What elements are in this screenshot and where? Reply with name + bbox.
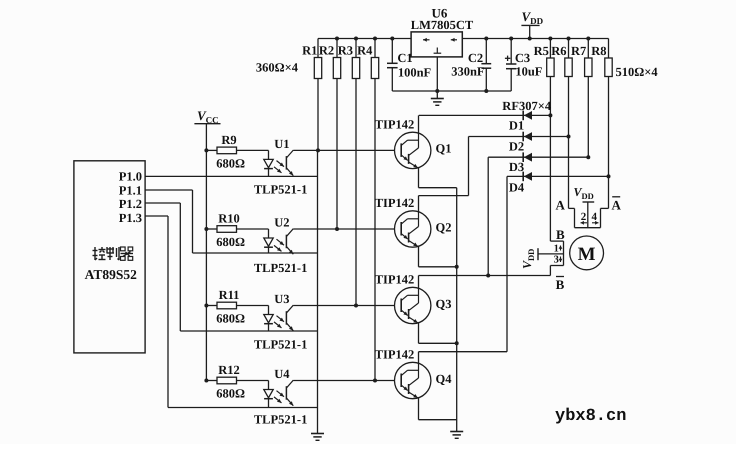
- junction base line / R1: [316, 148, 320, 152]
- svg-text:R1: R1: [302, 43, 317, 57]
- wire U2 collector to Q2 base: [293, 228, 394, 230]
- svg-text:VDD: VDD: [522, 9, 544, 26]
- svg-text:D3: D3: [509, 160, 524, 174]
- svg-text:Q1: Q1: [436, 142, 452, 156]
- label D1: [509, 119, 524, 133]
- label U2: [274, 216, 289, 230]
- wire Q4 emitter: [419, 398, 457, 420]
- label D3: [509, 160, 524, 174]
- power symbol VDD (top): [521, 9, 543, 39]
- svg-text:510Ω×4: 510Ω×4: [616, 65, 659, 79]
- label C1: [397, 51, 412, 65]
- wire R8 lower lead: [608, 77, 610, 209]
- resistor R5: [534, 39, 554, 77]
- label node A: [556, 198, 566, 213]
- svg-text:TLP521-1: TLP521-1: [254, 182, 307, 196]
- junction base line / R3: [354, 304, 358, 308]
- label Q1: [436, 142, 452, 156]
- wire regulator ground lead: [436, 57, 438, 99]
- svg-text:RF307×4: RF307×4: [502, 99, 552, 113]
- wire U3 collector to Q3 base: [293, 305, 394, 307]
- label C3: [515, 51, 530, 65]
- svg-text:TLP521-1: TLP521-1: [254, 338, 307, 352]
- label pin 2 with arrow: [581, 211, 588, 225]
- resistor R6: [551, 39, 572, 77]
- pin label P1.2: [119, 197, 142, 211]
- wire U1 collector to Q1 base: [293, 149, 394, 151]
- wire D3 feed down to B-bar node: [487, 157, 489, 275]
- wire U4 collector to Q4 base: [293, 380, 394, 382]
- pin label P1.0: [119, 170, 142, 184]
- optocoupler U2 TLP521-1: [264, 229, 294, 255]
- junction VCC rail / R10: [204, 227, 208, 231]
- svg-text:TIP142: TIP142: [375, 273, 415, 287]
- wire Q2 collector: [418, 196, 420, 212]
- pin label P1.3: [119, 211, 142, 225]
- svg-text:1: 1: [554, 244, 559, 255]
- svg-text:A: A: [612, 198, 622, 213]
- wire D2 feed from Q2 collector: [419, 137, 469, 196]
- label TLP521-1 (U4): [254, 413, 307, 427]
- svg-text:100nF: 100nF: [398, 65, 432, 79]
- svg-text:P1.0: P1.0: [119, 170, 142, 184]
- junction emitter rail / Q3: [455, 341, 459, 345]
- label D2: [509, 140, 524, 154]
- label node B-bar: [556, 277, 565, 293]
- wire R3 lower lead: [355, 79, 357, 306]
- label U4: [274, 367, 290, 381]
- wire Q4 collector: [418, 352, 420, 363]
- svg-text:R7: R7: [571, 44, 586, 58]
- junction ground rail / C2: [484, 89, 488, 93]
- wire R7 lower lead: [587, 77, 589, 158]
- resistor R12 680ohm: [206, 363, 245, 401]
- svg-text:TIP142: TIP142: [375, 117, 415, 131]
- wire R11 to opto LED: [237, 306, 269, 315]
- resistor R10 680ohm: [206, 212, 245, 250]
- junction C2 top: [484, 37, 488, 41]
- label Q2: [436, 220, 452, 234]
- svg-text:330nF: 330nF: [451, 65, 485, 79]
- label pin 3 with arrow: [554, 255, 563, 266]
- wire Q3 emitter: [419, 323, 457, 343]
- optocoupler U1 TLP521-1: [264, 150, 294, 176]
- svg-text:C2: C2: [468, 51, 483, 65]
- svg-text:R9: R9: [221, 133, 236, 147]
- svg-text:AT89S52: AT89S52: [85, 267, 138, 282]
- junction VCC rail / R11: [204, 304, 208, 308]
- resistor R9 680ohm: [206, 133, 245, 171]
- label pin 1 with arrow: [554, 244, 563, 255]
- svg-text:B: B: [556, 277, 565, 292]
- svg-text:M: M: [578, 244, 596, 265]
- label U3: [274, 292, 289, 306]
- junction on top rail at R3: [354, 37, 358, 41]
- junction on +5V rail at R7: [586, 37, 590, 41]
- junction on +5V rail at R5: [548, 37, 552, 41]
- wire emitter common rail: [456, 188, 458, 432]
- wire Q2 emitter: [419, 246, 457, 266]
- svg-text:Q4: Q4: [436, 372, 453, 386]
- wire P1.2 to U3: [145, 203, 317, 331]
- label 100nF: [398, 65, 432, 79]
- junction on top rail at R4: [373, 37, 377, 41]
- voltage regulator U6 LM7805CT: [411, 32, 462, 57]
- junction VDD stub on rail: [528, 37, 532, 41]
- svg-text:680Ω: 680Ω: [216, 387, 245, 401]
- junction D1 row at R5: [548, 113, 552, 117]
- junction C1 top: [390, 37, 394, 41]
- capacitor C2 330nF: [481, 39, 491, 92]
- svg-text:4: 4: [591, 211, 597, 223]
- label RF307 x4: [502, 99, 552, 113]
- wire +V input rail (left segment): [318, 38, 411, 40]
- label TIP142 (Q1): [375, 117, 415, 131]
- junction D3 row at R7: [586, 155, 590, 159]
- svg-text:R2: R2: [319, 43, 334, 57]
- resistor R2: [319, 39, 341, 79]
- diode D3 RF307: [488, 152, 588, 162]
- junction C3 top: [509, 37, 513, 41]
- svg-text:R5: R5: [534, 44, 549, 58]
- controller U5 AT89S52 box: [74, 161, 145, 353]
- wire P1.3 to U4: [145, 216, 317, 408]
- label TLP521-1 (U1): [254, 182, 307, 196]
- svg-text:VDD: VDD: [520, 249, 536, 269]
- wire R6 lower lead: [568, 77, 570, 209]
- label TIP142 (Q3): [375, 273, 415, 287]
- watermark ybx8.cn: [555, 407, 626, 426]
- capacitor C1 100nF: [387, 39, 398, 92]
- power symbol VCC: [194, 108, 220, 125]
- junction on +5V rail at R6: [567, 37, 571, 41]
- svg-text:TLP521-1: TLP521-1: [254, 413, 307, 427]
- wire R12 to opto LED: [237, 381, 269, 390]
- resistor R11 680ohm: [206, 288, 245, 326]
- transistor Q4 TIP142 (darlington): [395, 362, 431, 398]
- resistor R1: [302, 39, 322, 79]
- junction ground rail / regulator: [435, 89, 439, 93]
- svg-text:VDD: VDD: [574, 185, 594, 201]
- label U6: [432, 6, 448, 21]
- label node B: [556, 227, 565, 242]
- label 10uF: [515, 64, 542, 78]
- svg-text:LM7805CT: LM7805CT: [411, 18, 474, 32]
- svg-text:R6: R6: [551, 44, 566, 58]
- svg-text:R8: R8: [591, 44, 606, 58]
- wire Q1 emitter: [419, 168, 457, 188]
- svg-text:C1: C1: [397, 51, 412, 65]
- resistor R4: [357, 39, 379, 79]
- diode D2 RF307: [469, 132, 569, 142]
- label LM7805CT: [411, 18, 474, 32]
- wire D4 feed down to Q4 collector: [419, 176, 508, 351]
- junction on top rail at R2: [335, 37, 339, 41]
- svg-text:360Ω×4: 360Ω×4: [256, 61, 299, 75]
- label pin 4 with arrow: [591, 211, 598, 225]
- svg-text:R11: R11: [219, 288, 240, 302]
- capacitor C3 10uF (electrolytic): [505, 39, 517, 92]
- optocoupler U3 TLP521-1: [264, 305, 294, 331]
- label 330nF: [451, 65, 485, 79]
- diode D1 RF307: [419, 111, 551, 121]
- svg-text:TIP142: TIP142: [375, 348, 415, 362]
- svg-text:U3: U3: [274, 292, 289, 306]
- resistor R8: [591, 39, 612, 77]
- ground (emitter rail): [450, 432, 463, 439]
- svg-text:U1: U1: [274, 137, 289, 151]
- label U1: [274, 137, 289, 151]
- wire R5 lower lead: [549, 77, 551, 242]
- wire Q3 collector / B-bar node: [419, 275, 551, 277]
- svg-text:680Ω: 680Ω: [216, 157, 245, 171]
- wire R2 lower lead: [336, 79, 338, 230]
- svg-text:D4: D4: [509, 181, 525, 195]
- svg-text:Q2: Q2: [436, 220, 452, 234]
- svg-text:680Ω: 680Ω: [216, 312, 245, 326]
- wire R9 to opto LED: [237, 150, 269, 159]
- label C2: [468, 51, 483, 65]
- junction base line / R4: [373, 379, 377, 383]
- svg-text:D1: D1: [509, 119, 524, 133]
- ground (opto rail): [311, 434, 324, 441]
- svg-text:B: B: [556, 227, 565, 242]
- wire R1 lower lead: [317, 79, 319, 151]
- wire +5V rail (right segment): [462, 38, 608, 40]
- transistor Q3 TIP142 (darlington): [395, 287, 431, 323]
- wire P1.0 to U1: [145, 175, 317, 177]
- power symbol VDD (winding A center tap): [574, 185, 594, 201]
- svg-text:P1.2: P1.2: [119, 197, 142, 211]
- junction emitter rail / Q2: [455, 265, 459, 269]
- svg-text:R12: R12: [218, 363, 240, 377]
- junction base line / R2: [335, 227, 339, 231]
- label TLP521-1 (U2): [254, 261, 307, 275]
- optocoupler U4 TLP521-1: [264, 380, 294, 407]
- wire VCC rail vertical: [205, 124, 207, 381]
- junction VCC rail / R12: [204, 379, 208, 383]
- svg-text:R3: R3: [338, 43, 353, 57]
- svg-text:10uF: 10uF: [515, 64, 542, 78]
- label 510ohm x4: [616, 65, 659, 79]
- pin label P1.1: [119, 183, 142, 197]
- transistor Q1 TIP142 (darlington): [395, 132, 431, 168]
- resistor R7: [571, 39, 592, 77]
- power symbol VDD (winding B center tap, rotated): [520, 249, 536, 269]
- junction VCC rail / R9: [204, 148, 208, 152]
- motor winding A (phase A / A-bar with center tap): [569, 202, 609, 228]
- svg-text:Q3: Q3: [436, 297, 452, 311]
- resistor R3: [338, 39, 360, 79]
- svg-text:VCC: VCC: [197, 108, 219, 125]
- label 控制器 (controller) drawn strokes: [93, 247, 134, 260]
- svg-text:R10: R10: [218, 212, 240, 226]
- svg-text:P1.1: P1.1: [119, 183, 142, 197]
- svg-text:U4: U4: [274, 367, 290, 381]
- label node A-bar: [612, 197, 622, 213]
- label AT89S52: [85, 267, 138, 282]
- junction D4 row at R8: [607, 174, 611, 178]
- wire R4 lower lead: [374, 79, 376, 381]
- wire capacitor ground rail: [392, 90, 511, 92]
- motor winding B (phase B / B-bar with center tap): [538, 241, 564, 275]
- svg-text:D2: D2: [509, 140, 524, 154]
- svg-text:C3: C3: [515, 51, 530, 65]
- label Q3: [436, 297, 452, 311]
- svg-text:U2: U2: [274, 216, 289, 230]
- svg-text:TIP142: TIP142: [375, 196, 415, 210]
- svg-text:A: A: [556, 198, 566, 213]
- svg-text:P1.3: P1.3: [119, 211, 142, 225]
- svg-text:3: 3: [554, 255, 559, 266]
- label 360ohm x4: [256, 61, 299, 75]
- label Q4: [436, 372, 453, 386]
- svg-text:TLP521-1: TLP521-1: [254, 261, 307, 275]
- svg-text:R4: R4: [357, 43, 373, 57]
- wire R10 to opto LED: [237, 229, 269, 238]
- svg-text:ybx8.cn: ybx8.cn: [555, 407, 626, 426]
- ground (regulator): [431, 99, 444, 106]
- wire P1.1 to U2: [145, 190, 317, 253]
- transistor Q2 TIP142 (darlington): [395, 211, 431, 247]
- junction D3 feed on B-bar line: [486, 274, 490, 278]
- wire opto emitter common rail: [317, 150, 319, 433]
- svg-text:680Ω: 680Ω: [216, 235, 245, 249]
- motor M: [570, 236, 604, 270]
- wire Q3 collector: [418, 276, 420, 289]
- label TIP142 (Q4): [375, 348, 415, 362]
- label TLP521-1 (U3): [254, 338, 307, 352]
- label TIP142 (Q2): [375, 196, 415, 210]
- diode D4 RF307: [507, 172, 609, 182]
- label D4: [509, 181, 525, 195]
- junction D2 row at R6: [567, 135, 571, 139]
- wire Q1 collector: [418, 115, 420, 132]
